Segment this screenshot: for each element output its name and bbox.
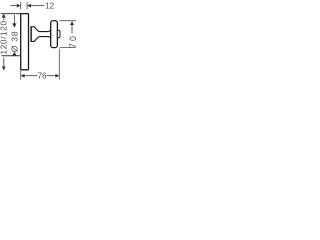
body plate rect: [21, 14, 29, 70]
svg-text:76: 76: [37, 72, 47, 81]
cone / escutcheon sleeve: [31, 27, 51, 42]
wire: mid reference line y55.8: [2, 55, 21, 57]
dim Ø38 (inner left, vertical): [13, 15, 15, 24]
svg-text:Ø 38: Ø 38: [9, 31, 19, 52]
handle bar (cross handle edge-on): [51, 21, 58, 48]
technical drawing: wall valve side view with cross handle: [0, 0, 79, 88]
dim 12: left line + right arrow: [10, 5, 17, 7]
dim 70 (right): extension lines: [60, 21, 76, 48]
svg-text:70: 70: [68, 34, 78, 48]
dim 76: arrows + lines: [21, 74, 25, 78]
dim 76 (bottom): extension lines: [21, 49, 60, 80]
dim 12: left arrow + right line: [27, 4, 31, 8]
hub cap: [57, 30, 60, 37]
svg-text:12: 12: [45, 2, 55, 11]
dim 120/120 (left, vertical): [2, 14, 6, 18]
cone back edge: [30, 26, 32, 41]
wire: top reference line y13.6: [1, 13, 21, 15]
svg-text:120/120: 120/120: [0, 20, 9, 54]
dim 70: line + arrows: [70, 21, 74, 25]
dim 12 (top): extension lines: [21, 2, 27, 10]
